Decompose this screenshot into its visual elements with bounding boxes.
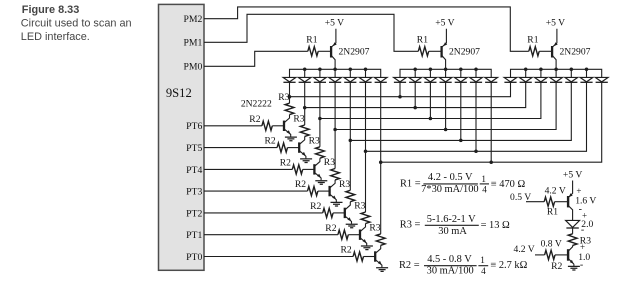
resistor R1 (example) xyxy=(544,197,554,206)
wire cathode column g1 row 3 xyxy=(319,82,321,118)
ground (example) xyxy=(568,266,580,270)
wire PT4 to R2 xyxy=(204,168,292,170)
transistor row 2 2N2222 (NPN) xyxy=(298,142,300,152)
resistor R2 (row 7) xyxy=(353,252,363,261)
svg-text:30 mA/100: 30 mA/100 xyxy=(427,266,474,277)
wire row 3 to R3 xyxy=(319,119,321,147)
resistor R1 (column driver 2) xyxy=(418,47,428,56)
LED D27 xyxy=(485,77,498,82)
wire row 3 net xyxy=(320,82,541,118)
svg-text:2N2907: 2N2907 xyxy=(560,47,591,58)
node rail junctions group 1 xyxy=(303,68,307,72)
node row 5 junctions xyxy=(349,139,353,143)
LED D14 xyxy=(334,69,336,77)
svg-text:PT1: PT1 xyxy=(186,230,202,241)
ground (row 3) xyxy=(315,181,327,185)
svg-text:PM1: PM1 xyxy=(183,38,202,49)
wire anode rail group 1 xyxy=(290,69,381,77)
svg-text:Circuit used to scan an: Circuit used to scan an xyxy=(21,18,132,30)
svg-text:PT4: PT4 xyxy=(186,165,202,176)
svg-text:7*30 mA/100: 7*30 mA/100 xyxy=(421,184,478,195)
ground (row 7) xyxy=(376,268,388,272)
svg-text:R2 =: R2 = xyxy=(399,260,420,271)
wire cathode column g2 row 4 xyxy=(445,82,447,129)
transistor row 7 2N2222 (NPN) xyxy=(374,251,376,261)
svg-text:30 mA: 30 mA xyxy=(438,226,467,237)
svg-text:PT3: PT3 xyxy=(186,187,202,198)
wire cathode column g1 row 1 xyxy=(289,82,291,96)
resistor R2 (row 5) xyxy=(323,208,333,217)
wire row 7 net xyxy=(381,82,602,162)
node row 3 junctions xyxy=(318,117,322,121)
svg-text:+5 V: +5 V xyxy=(563,169,582,180)
svg-text:1: 1 xyxy=(480,255,485,265)
wire cathode column g1 row 6 xyxy=(365,82,367,151)
svg-text:-: - xyxy=(581,224,584,235)
svg-text:R2: R2 xyxy=(264,136,275,147)
wire cathode column g2 row 7 xyxy=(490,82,492,162)
svg-text:R3: R3 xyxy=(369,223,380,234)
LED D26 xyxy=(475,69,477,77)
LED D12 xyxy=(304,69,306,77)
resistor R2 (row 1) xyxy=(262,121,272,130)
node row 1 junctions xyxy=(288,95,292,99)
wire PT5 to R2 xyxy=(204,147,277,149)
svg-text:+5 V: +5 V xyxy=(546,18,565,29)
LED D16 xyxy=(365,69,367,77)
svg-text:≡ 470 Ω: ≡ 470 Ω xyxy=(491,179,526,190)
node rail junctions group 3 xyxy=(524,68,528,72)
transistor Q5 2N2222 (NPN example) xyxy=(567,249,569,261)
wire PT2 to R2 xyxy=(204,212,323,214)
svg-text:R1: R1 xyxy=(306,35,317,46)
wire row 4 net xyxy=(335,82,556,129)
svg-text:2N2907: 2N2907 xyxy=(339,47,370,58)
svg-text:R2: R2 xyxy=(310,201,321,212)
svg-text:PT5: PT5 xyxy=(186,143,202,154)
resistor R2 (row 2) xyxy=(277,143,287,152)
svg-text:+5 V: +5 V xyxy=(435,18,454,29)
svg-text:2N2907: 2N2907 xyxy=(449,47,480,58)
wire row 6 net xyxy=(366,82,587,151)
resistor R1 (column driver 3) xyxy=(529,47,539,56)
resistor R3 (row 4) xyxy=(331,169,340,180)
transistor row 5 2N2222 (NPN) xyxy=(344,208,346,218)
LED D24 xyxy=(445,69,447,77)
ground (row 5) xyxy=(346,224,358,228)
wire PM2 to R1 of Q3 xyxy=(204,7,529,51)
wire PT0 to R2 xyxy=(204,256,353,258)
wire cathode column g1 row 5 xyxy=(349,82,351,140)
svg-text:R3 =: R3 = xyxy=(400,220,421,231)
transistor Q4 2N2907 (PNP example) xyxy=(567,196,569,207)
svg-text:Figure 8.33: Figure 8.33 xyxy=(22,4,80,16)
svg-text:PM0: PM0 xyxy=(183,62,202,73)
wire anode rail group 2 xyxy=(400,69,491,77)
svg-text:4.2 - 0.5 V: 4.2 - 0.5 V xyxy=(428,172,473,183)
wire row 1 net xyxy=(290,82,511,96)
svg-text:R3: R3 xyxy=(293,114,304,125)
wire row 7 to R3 xyxy=(380,162,382,234)
svg-text:R2: R2 xyxy=(295,179,306,190)
LED D35 xyxy=(570,69,572,77)
ground (row 6) xyxy=(361,246,373,250)
resistor R2 (row 4) xyxy=(308,187,318,196)
transistor row 3 2N2222 (NPN) xyxy=(313,164,315,174)
svg-text:4: 4 xyxy=(482,184,487,194)
wire cathode column g2 row 2 xyxy=(414,82,416,107)
svg-text:LED interface.: LED interface. xyxy=(21,31,90,43)
svg-text:R3: R3 xyxy=(309,135,320,146)
wire +5V to emitter Q1 xyxy=(331,29,336,48)
svg-text:4.2 V: 4.2 V xyxy=(545,185,566,196)
transistor row 4 2N2222 (NPN) xyxy=(328,186,330,196)
svg-text:1: 1 xyxy=(481,174,486,184)
node row 7 junctions xyxy=(379,160,383,164)
svg-text:5-1.6-2-1 V: 5-1.6-2-1 V xyxy=(427,214,476,225)
LED D36 xyxy=(586,69,588,77)
resistor R3 (row 6) xyxy=(361,212,370,223)
LED D31 xyxy=(504,77,517,82)
wire PT6 to R2 xyxy=(204,125,262,127)
resistor R2 (row 6) xyxy=(338,230,348,239)
LED D17 xyxy=(374,77,387,82)
wire PM1 to R1 of Q2 xyxy=(204,14,418,51)
resistor R3 (row 2) xyxy=(300,125,309,136)
wire R2 input (example) xyxy=(535,254,545,256)
LED D11 xyxy=(283,77,296,82)
wire base to R1 (example) xyxy=(526,201,544,203)
resistor R2 (example) xyxy=(545,250,555,259)
transistor Q2 2N2907 (PNP) xyxy=(440,46,442,58)
wire row 5 net xyxy=(350,82,571,140)
svg-text:R2: R2 xyxy=(325,223,336,234)
svg-text:R1: R1 xyxy=(527,35,538,46)
wire +5V to emitter Q2 xyxy=(442,29,447,48)
svg-text:R2: R2 xyxy=(280,158,291,169)
svg-text:PT0: PT0 xyxy=(186,252,202,263)
resistor R2 (row 3) xyxy=(292,165,302,174)
svg-text:≡ 2.7 kΩ: ≡ 2.7 kΩ xyxy=(490,260,527,271)
LED D25 xyxy=(460,69,462,77)
LED D13 xyxy=(319,69,321,77)
svg-text:R2: R2 xyxy=(340,245,351,256)
microcontroller 9S12 box xyxy=(159,4,205,270)
wire PT3 to R2 xyxy=(204,190,308,192)
transistor row 6 2N2222 (NPN) xyxy=(359,230,361,240)
wire +5V to emitter Q4 xyxy=(568,181,573,198)
ground (row 1) xyxy=(285,137,297,141)
transistor Q1 2N2907 (PNP) xyxy=(330,46,332,58)
ground (row 2) xyxy=(300,159,312,163)
node row 2 junctions xyxy=(303,106,307,110)
resistor R3 (example) xyxy=(568,234,577,246)
LED D37 xyxy=(595,77,608,82)
wire row 2 to R3 xyxy=(304,108,306,125)
wire row 6 to R3 xyxy=(365,151,367,212)
svg-text:4.5 - 0.8 V: 4.5 - 0.8 V xyxy=(427,254,472,265)
LED D15 xyxy=(349,69,351,77)
svg-text:0.8 V: 0.8 V xyxy=(541,239,562,250)
svg-text:+5 V: +5 V xyxy=(325,18,344,29)
wire R3 to collector (example) xyxy=(568,245,573,251)
ground (row 4) xyxy=(331,202,343,206)
svg-text:4: 4 xyxy=(481,266,486,276)
wire row 4 to R3 xyxy=(334,130,336,169)
wire cathode column g1 row 2 xyxy=(304,82,306,107)
svg-text:R1: R1 xyxy=(547,206,558,217)
resistor R1 (column driver 1) xyxy=(308,47,318,56)
resistor R3 (row 1) xyxy=(285,103,294,114)
svg-text:PT6: PT6 xyxy=(186,121,202,132)
wire cathode column g2 row 5 xyxy=(460,82,462,140)
svg-text:PT2: PT2 xyxy=(186,208,202,219)
node row 4 junctions xyxy=(333,128,337,132)
svg-text:R3: R3 xyxy=(324,157,335,168)
svg-text:R1: R1 xyxy=(417,35,428,46)
LED D32 xyxy=(525,69,527,77)
transistor Q3 2N2907 (PNP) xyxy=(551,46,553,58)
svg-text:R3: R3 xyxy=(278,92,289,103)
wire cathode column g1 row 4 xyxy=(334,82,336,129)
LED D33 xyxy=(540,69,542,77)
svg-text:R1 =: R1 = xyxy=(400,179,421,190)
LED D22 xyxy=(414,69,416,77)
resistor R3 (row 5) xyxy=(346,190,355,201)
svg-text:R2: R2 xyxy=(249,114,260,125)
wire +5V to emitter Q3 xyxy=(552,29,557,48)
node row 6 junctions xyxy=(364,150,368,154)
svg-text:9S12: 9S12 xyxy=(166,86,192,100)
svg-text:PM2: PM2 xyxy=(183,14,202,25)
resistor R3 (row 7) xyxy=(376,234,385,245)
wire PT1 to R2 xyxy=(204,234,338,236)
svg-text:R3: R3 xyxy=(339,179,350,190)
wire cathode column g2 row 3 xyxy=(429,82,431,118)
svg-text:R3: R3 xyxy=(354,201,365,212)
wire row 1 to R3 xyxy=(289,97,291,104)
svg-text:2N2222: 2N2222 xyxy=(241,99,272,110)
wire cathode column g2 row 6 xyxy=(475,82,477,151)
svg-text:+: + xyxy=(580,242,585,252)
svg-text:-: - xyxy=(580,259,583,270)
LED D0 (example) xyxy=(566,220,580,227)
LED D23 xyxy=(429,69,431,77)
transistor row 1 2N2222 (NPN) xyxy=(283,121,285,131)
wire anode rail group 3 xyxy=(511,69,602,77)
svg-text:= 13 Ω: = 13 Ω xyxy=(481,220,510,231)
wire PM0 to R1 of Q1 xyxy=(204,51,308,66)
LED D34 xyxy=(555,69,557,77)
wire cathode column g2 row 1 xyxy=(399,82,401,96)
node rail junctions group 2 xyxy=(413,68,417,72)
wire cathode column g1 row 7 xyxy=(380,82,382,162)
wire row 2 net xyxy=(305,82,526,107)
svg-text:4.2 V: 4.2 V xyxy=(514,244,535,255)
wire row 5 to R3 xyxy=(349,140,351,190)
svg-text:+: + xyxy=(576,186,581,196)
svg-text:R2: R2 xyxy=(551,261,562,272)
resistor R3 (row 3) xyxy=(316,147,325,158)
LED D21 xyxy=(394,77,407,82)
